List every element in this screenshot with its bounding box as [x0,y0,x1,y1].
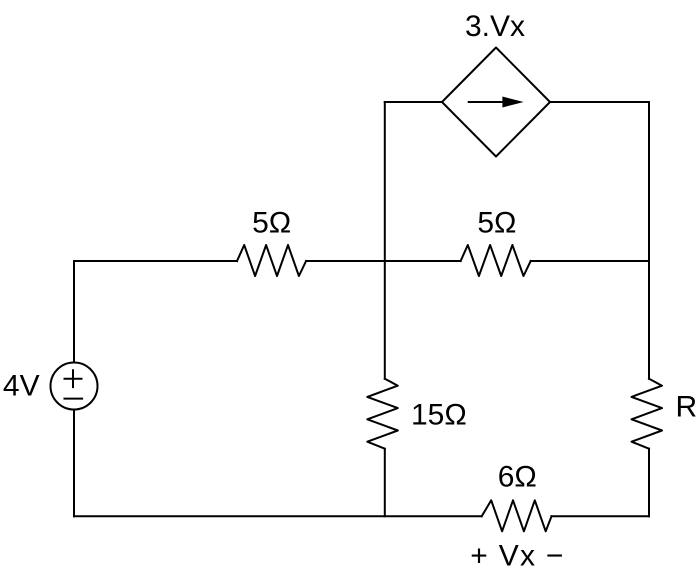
wire middle rail center (R1 to 5-ohm R2, crossing node) [306,260,461,262]
wire middle rail left (left rail to 5-ohm R1) [74,260,237,262]
wire right vertical upper (top-right corner down to R top) [648,102,650,379]
svg-text:3.Vx: 3.Vx [465,10,525,43]
svg-text:5Ω: 5Ω [252,207,291,240]
minus sign inside 4V source [65,398,83,400]
dependent current source U1 diamond 3.Vx [442,48,550,157]
wire top-left segment from node T to dependent source [385,101,442,103]
svg-text:5Ω: 5Ω [477,207,516,240]
wire bottom rail right (6-ohm to right corner) [552,515,650,517]
wire middle vertical upper (node T down to 15-ohm top) [384,102,386,379]
resistor R2 5-ohm [461,245,531,276]
svg-text:R: R [676,391,698,424]
resistor R4 R [632,379,663,449]
voltage source V1 4V circle [51,363,98,410]
arrow inside dependent source [468,97,524,108]
resistor R5 6-ohm [482,500,552,531]
wire bottom rail left (left corner to 6-ohm) [74,515,482,517]
svg-text:15Ω: 15Ω [411,399,467,432]
wire middle rail right (R2 to right vertical) [531,260,649,262]
wire dependent source to top-right corner [550,101,649,103]
wire left vertical lower (4V source to bottom rail) [73,410,75,517]
wire right vertical lower (R bottom to bottom rail) [648,449,650,517]
wire left vertical upper (middle rail down to 4V source) [73,261,75,363]
svg-text:4V: 4V [3,369,40,402]
plus sign inside 4V source [65,370,82,387]
svg-text:+ Vx −: + Vx − [470,539,565,572]
wire middle vertical lower (15-ohm bottom to bottom rail) [384,449,386,517]
svg-text:6Ω: 6Ω [498,461,537,494]
resistor R3 15-ohm [367,379,398,449]
resistor R1 5-ohm [237,245,306,276]
